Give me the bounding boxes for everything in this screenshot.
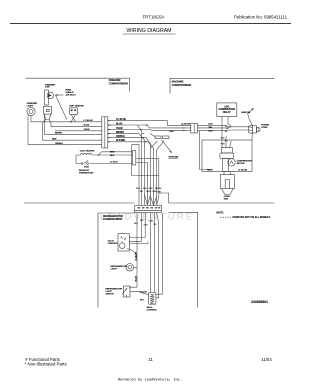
switch to mull wire	[130, 292, 149, 295]
wire w6 drop to bundle	[115, 142, 153, 206]
svg-text:OR/BLK: OR/BLK	[55, 143, 63, 145]
svg-text:DENOTES NOT ON ALL MODELS: DENOTES NOT ON ALL MODELS	[233, 216, 271, 219]
defrost heater leads X	[71, 114, 75, 121]
svg-text:RUN: RUN	[221, 143, 226, 145]
machine compartment bracket	[170, 78, 275, 93]
connector C3 small	[133, 151, 136, 166]
compressor motor	[222, 159, 228, 172]
rowD into terminal box	[150, 134, 155, 137]
bundle vertical 1	[138, 125, 142, 205]
svg-text:GROUND: GROUND	[169, 156, 179, 158]
svg-text:LT. BLUE: LT. BLUE	[181, 124, 191, 126]
coil heater left return	[76, 155, 81, 164]
svg-text:LT. BLUE: LT. BLUE	[84, 120, 94, 122]
wire shield arrow	[55, 94, 63, 96]
svg-text:GRN/YEL: GRN/YEL	[241, 112, 251, 114]
freezer light	[27, 107, 35, 115]
svg-text:240398801: 240398801	[251, 300, 268, 304]
ADC lead 2	[228, 117, 232, 127]
svg-text:FRT18G5A: FRT18G5A	[143, 14, 165, 19]
connector H main harness	[135, 205, 162, 210]
svg-text:COMPARTMENT: COMPARTMENT	[172, 84, 192, 87]
title underline	[123, 33, 176, 35]
wire w5 drop to bundle	[115, 138, 150, 206]
svg-text:YELW: YELW	[146, 191, 151, 193]
wire L3 yellow	[55, 130, 102, 132]
cold control curve to light feed	[127, 249, 137, 260]
below-H bundle verticals	[136, 213, 138, 268]
pin arrows before C2	[183, 125, 186, 132]
svg-text:ORG: ORG	[143, 188, 148, 190]
header rule	[10, 23, 291, 25]
svg-text:CORD: CORD	[261, 127, 268, 129]
svg-text:BLK: BLK	[209, 124, 214, 126]
freezer compartment bracket	[26, 78, 130, 91]
svg-text:RELAY: RELAY	[223, 111, 231, 114]
right pair vertical	[157, 159, 159, 205]
line brn to C3	[99, 152, 133, 155]
ADC lead 1	[221, 117, 223, 148]
svg-text:Publication No: 5995421111: Publication No: 5995421111	[234, 14, 288, 19]
condenser fan stubs	[223, 171, 225, 175]
relay stack labels	[221, 138, 228, 146]
refrigerator light switch	[124, 286, 131, 297]
wire L5 red	[43, 120, 102, 141]
refrigerator light	[126, 264, 134, 272]
bundle V merge 2	[151, 197, 154, 206]
wire terminal box B	[163, 136, 170, 139]
svg-text:ORG: ORG	[144, 225, 149, 227]
svg-text:* Non-Illustrated Parts: * Non-Illustrated Parts	[25, 362, 67, 367]
svg-text:SWITCH: SWITCH	[106, 293, 115, 295]
svg-text:BR/WH: BR/WH	[155, 188, 162, 190]
svg-text:11: 11	[148, 357, 153, 362]
condenser fan motor	[220, 175, 234, 189]
svg-text:BRN: BRN	[110, 152, 115, 154]
svg-text:BR/WH: BR/WH	[55, 133, 63, 135]
svg-text:COMPRESSOR: COMPRESSOR	[219, 109, 236, 111]
defrost heater body	[70, 108, 78, 115]
mull control heater	[149, 292, 156, 304]
svg-text:COMPARTMENT: COMPARTMENT	[109, 82, 129, 85]
C1 right pins	[108, 121, 116, 142]
long horizontal run left segment	[24, 202, 135, 204]
svg-text:LT. BLUE: LT. BLUE	[238, 170, 248, 172]
below-H wire labels	[134, 220, 157, 227]
svg-text:CONTROL: CONTROL	[108, 243, 119, 245]
C1 pin taper marks	[108, 120, 112, 143]
freezer fan motor body	[44, 90, 48, 105]
refrigerator compartment box left edge	[98, 213, 135, 308]
svg-text:AIR DUCT: AIR DUCT	[66, 94, 77, 97]
wire L1 lt.blue	[44, 121, 102, 123]
light tap wire	[134, 266, 137, 268]
connector taper	[44, 114, 50, 119]
terminal drop wires	[151, 141, 158, 148]
refrigerator compartment box right edge	[169, 212, 198, 307]
svg-text:WH: WH	[209, 127, 213, 129]
wire w2 to connector C2	[115, 125, 191, 128]
power cord plug	[249, 125, 253, 133]
svg-text:MOTOR: MOTOR	[237, 163, 245, 165]
wire w1 to connector C2	[115, 121, 191, 126]
svg-text:DEF. HEATER: DEF. HEATER	[70, 105, 85, 108]
freezer fan blade circle	[47, 92, 54, 99]
wire junction triangle on L1	[71, 121, 73, 123]
ground arrow	[162, 140, 172, 153]
coil heater element	[76, 153, 133, 155]
C2 output wires	[198, 125, 253, 127]
svg-text:RED: RED	[52, 138, 57, 140]
svg-text:Rendered by LeadVenture, Inc.: Rendered by LeadVenture, Inc.	[118, 378, 182, 383]
cold control box	[118, 234, 129, 251]
svg-text:YELW: YELW	[84, 129, 90, 131]
svg-text:WH: WH	[140, 299, 144, 301]
defrost thermostat lower line	[90, 163, 133, 165]
svg-text:FAN: FAN	[224, 197, 229, 200]
svg-text:LT. BLUE: LT. BLUE	[136, 251, 138, 261]
junction triangles mid band	[140, 124, 148, 142]
cross line 2	[136, 163, 148, 206]
svg-text:THERMOSTAT: THERMOSTAT	[79, 171, 95, 174]
connector C1 freezer pass-through	[102, 117, 108, 148]
cross line 1	[136, 158, 159, 160]
svg-text:YELW: YELW	[207, 170, 213, 172]
svg-text:LIGHT: LIGHT	[111, 268, 118, 270]
svg-text:NOTE:: NOTE:	[217, 212, 225, 215]
wire L4 br-wh	[44, 114, 101, 134]
svg-text:ADC: ADC	[224, 105, 229, 108]
svg-text:LT. BLU: LT. BLU	[110, 162, 118, 164]
bundle V merge 1	[145, 195, 148, 205]
ground wire to long run	[159, 193, 274, 203]
freezer light lead 1	[31, 116, 44, 122]
C3 drop wire	[132, 145, 159, 176]
overload relay	[221, 148, 232, 153]
wire shield diagonal line	[56, 95, 67, 119]
svg-text:11/04: 11/04	[261, 357, 272, 362]
wire w4 to connector C2	[115, 134, 144, 206]
svg-text:WIRING DIAGRAM: WIRING DIAGRAM	[127, 28, 172, 34]
plug down wire	[251, 133, 253, 140]
svg-text:BLK: BLK	[209, 130, 214, 132]
evaporator fan connector block	[44, 106, 52, 114]
bundle vertical 2	[132, 145, 139, 206]
svg-text:BLK: BLK	[110, 155, 115, 157]
wire w3 drop to bundle	[115, 130, 191, 131]
connector C2	[191, 123, 198, 133]
compressor box	[202, 140, 252, 171]
bundle wire labels	[136, 188, 162, 194]
svg-text:FAN: FAN	[45, 86, 50, 89]
cross junction dots	[141, 158, 154, 176]
wire L2 blue	[49, 120, 102, 127]
svg-text:COMPARTMENT: COMPARTMENT	[103, 218, 123, 221]
cold control third wire	[129, 242, 148, 244]
relay leads	[225, 136, 227, 148]
junction arrows to plug	[225, 125, 229, 132]
svg-text:BLUE: BLUE	[84, 125, 90, 127]
freezer light lead 2	[28, 114, 102, 145]
light feed continues down	[130, 267, 137, 289]
junction triangle	[98, 154, 100, 155]
svg-text:BLK: BLK	[170, 131, 175, 133]
svg-text:COIL HEATER: COIL HEATER	[80, 150, 95, 153]
adaptive defrost control box	[217, 103, 237, 117]
svg-text:CONTROL: CONTROL	[147, 309, 158, 311]
svg-text:STAT: STAT	[84, 165, 90, 168]
wire terminal box A	[155, 136, 161, 139]
grn-yel ground arrow	[247, 109, 253, 115]
defrost thermostat symbol	[81, 161, 89, 165]
